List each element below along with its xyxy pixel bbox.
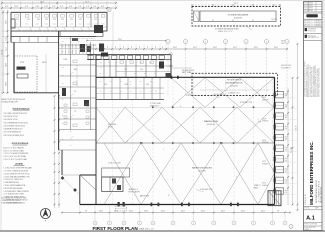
svg-text:9'-2": 9'-2"	[52, 6, 56, 8]
svg-text:9x10: 9x10	[285, 169, 288, 171]
svg-text:3: 3	[285, 223, 286, 225]
north wall window band	[87, 55, 171, 60]
svg-text:20'-0": 20'-0"	[161, 211, 166, 213]
south entrance door jambs and canopy below	[116, 202, 239, 211]
warehouse south wall	[80, 204, 275, 206]
office lower wall and rooms	[11, 37, 59, 43]
office corridor wall	[11, 36, 96, 38]
svg-text:LEVELER: LEVELER	[262, 121, 268, 123]
svg-text:STORAGE MEZZANINE PLAN: STORAGE MEZZANINE PLAN	[215, 27, 239, 30]
dock office rooms in SW warehouse corner	[102, 168, 130, 192]
svg-text:2: 2	[185, 41, 186, 43]
southwest canopy with columns	[61, 175, 96, 195]
svg-text:18'-6": 18'-6"	[6, 20, 8, 24]
svg-text:101 LOBBY / RECEPTION 14: 101 LOBBY / RECEPTION 14'X12'	[4, 113, 29, 115]
storage room 105 with dashed equipment	[14, 56, 37, 92]
svg-text:5. 30'X50' COL. GRID U.N.O.: 5. 30'X50' COL. GRID U.N.O.	[4, 179, 24, 181]
middle wing rooms and plumbing walls	[59, 25, 109, 150]
svg-text:9'-1": 9'-1"	[60, 6, 64, 8]
svg-text:LEVELER: LEVELER	[262, 164, 268, 166]
svg-text:4: 4	[291, 226, 292, 228]
svg-text:3: 3	[253, 223, 254, 225]
svg-text:3: 3	[173, 223, 174, 225]
svg-text:MILFORD ENTERPRISES INC.: MILFORD ENTERPRISES INC.	[309, 141, 314, 205]
warehouse west wall	[95, 55, 97, 205]
svg-text:20'-0": 20'-0"	[274, 47, 278, 49]
svg-text:CORR.: CORR.	[63, 59, 68, 61]
svg-text:12'x14' O.H. DOOR: 12'x14' O.H. DOOR	[108, 163, 121, 165]
svg-text:20'-0": 20'-0"	[173, 47, 177, 49]
svg-text:3: 3	[213, 223, 214, 225]
svg-text:88'-7": 88'-7"	[234, 3, 238, 5]
storage mezzanine plan (detail above)	[191, 3, 281, 33]
svg-text:103 OFFICE: 103 OFFICE 12'X10'	[4, 119, 19, 121]
svg-text:WAREHOUSE/STAGING: WAREHOUSE/STAGING	[192, 167, 213, 170]
svg-text:MECH.: MECH.	[42, 62, 47, 64]
svg-text:SEE CIVIL FOR: SEE CIVIL FOR	[281, 65, 291, 67]
svg-text:DOCK: DOCK	[262, 118, 266, 120]
southeast corner stair	[268, 191, 281, 206]
svg-text:9x10: 9x10	[285, 147, 288, 149]
svg-text:9x10: 9x10	[285, 94, 288, 96]
svg-text:3: 3	[95, 223, 96, 225]
title block sheet number	[304, 207, 323, 232]
svg-text:GRID: GRID	[281, 43, 284, 45]
svg-text:7'-0": 7'-0"	[93, 6, 97, 8]
svg-text:3: 3	[193, 223, 194, 225]
svg-text:3: 3	[153, 223, 154, 225]
svg-text:7'-6": 7'-6"	[78, 6, 82, 8]
svg-text:9'-0": 9'-0"	[5, 6, 9, 8]
right dimension strings	[281, 41, 298, 229]
svg-text:9'-1": 9'-1"	[25, 6, 29, 8]
svg-text:3: 3	[124, 223, 125, 225]
svg-text:2: 2	[287, 41, 288, 43]
svg-text:107 TOILET (MEN): 107 TOILET (MEN) 8'X10'	[4, 132, 23, 134]
svg-text:10: 10	[168, 195, 170, 197]
warehouse north wall	[96, 76, 275, 79]
svg-text:2: 2	[168, 41, 169, 43]
svg-text:ROOM: ROOM	[108, 126, 113, 128]
svg-text:2: 2	[225, 41, 226, 43]
svg-text:79'-0": 79'-0"	[118, 39, 123, 41]
svg-text:2: 2	[266, 41, 267, 43]
future office mezzanine dashed outline	[192, 73, 278, 95]
svg-text:14'-6": 14'-6"	[129, 211, 134, 213]
svg-text:FUTURE OFFICE: FUTURE OFFICE	[182, 70, 194, 72]
svg-text:8'-0": 8'-0"	[69, 6, 73, 8]
svg-text:20'-0": 20'-0"	[233, 47, 237, 49]
interior horizontal grid line upper	[96, 106, 275, 108]
svg-text:18'-0": 18'-0"	[6, 63, 8, 67]
steel columns at grid intersections	[152, 107, 254, 144]
svg-text:54'-8": 54'-8"	[40, 1, 45, 3]
svg-text:20'-0": 20'-0"	[254, 47, 258, 49]
storage room west wall	[13, 42, 15, 92]
southwest canopy edge line	[62, 174, 80, 176]
svg-text:9x10: 9x10	[285, 158, 288, 160]
svg-text:REFER TO KEY NOTES THIS SHT: REFER TO KEY NOTES THIS SHT	[2, 99, 26, 101]
svg-text:1,470 SF: 1,470 SF	[271, 19, 277, 21]
svg-text:LEVELER: LEVELER	[262, 99, 268, 101]
svg-text:LEVELER: LEVELER	[262, 142, 268, 144]
svg-text:9x10: 9x10	[285, 179, 288, 181]
svg-text:3: 3	[109, 223, 110, 225]
svg-text:3: 3	[234, 223, 235, 225]
rooms south of warehouse north wall	[96, 77, 164, 99]
svg-text:9x10: 9x10	[285, 126, 288, 128]
svg-text:MEZZANINE ABOVE: MEZZANINE ABOVE	[226, 81, 244, 84]
svg-text:9x10: 9x10	[285, 190, 288, 192]
svg-text:13'-6": 13'-6"	[144, 211, 149, 213]
svg-text:LEVELER: LEVELER	[262, 185, 268, 187]
svg-text:(6,000 SF): (6,000 SF)	[230, 86, 238, 88]
svg-text:(9,200 SF): (9,200 SF)	[198, 170, 206, 172]
title block frame and architect info	[304, 2, 323, 231]
svg-text:FUTURE OFFICE: FUTURE OFFICE	[227, 80, 242, 82]
upper-mid dimension strings	[86, 39, 288, 51]
roof bracing diagonals	[96, 78, 274, 205]
svg-text:5'-6": 5'-6"	[6, 37, 8, 41]
svg-text:SITE PRIOR TO COMMENCEMENT OF: SITE PRIOR TO COMMENCEMENT OF WORK.	[313, 65, 315, 97]
southwest step wall horizontal	[80, 174, 96, 176]
lower-left dimension strings	[46, 54, 60, 208]
svg-text:(6,000 SF): (6,000 SF)	[234, 18, 242, 20]
svg-text:(28,400 SF): (28,400 SF)	[207, 124, 216, 126]
svg-text:104 CONFERENCE ROOM 16'X1: 104 CONFERENCE ROOM 16'X12'	[4, 122, 29, 124]
svg-text:20'-0": 20'-0"	[221, 211, 226, 213]
southwest wing west wall	[61, 150, 63, 175]
svg-text:REPRODUCTION WITHOUT WRITTEN C: REPRODUCTION WITHOUT WRITTEN CONSENT	[308, 64, 310, 97]
column grid bubbles top	[107, 7, 289, 95]
svg-text:DOCK: DOCK	[262, 97, 266, 99]
svg-text:20'-0": 20'-0"	[193, 47, 197, 49]
svg-text:MEZZ.: MEZZ.	[254, 187, 259, 189]
svg-text:7'-10": 7'-10"	[35, 6, 40, 8]
canopy line east of offices	[171, 67, 192, 69]
interior fire wall	[96, 142, 275, 144]
office west wall segment	[10, 31, 12, 42]
svg-text:A.1: A.1	[306, 216, 315, 222]
svg-text:20'-0": 20'-0"	[201, 211, 206, 213]
svg-text:7'-5": 7'-5"	[86, 6, 90, 8]
svg-text:11: 11	[155, 91, 157, 93]
svg-text:SEE STRUCT.: SEE STRUCT.	[150, 105, 160, 107]
left dimension strings	[1, 10, 9, 94]
svg-text:STOR.: STOR.	[20, 62, 25, 64]
svg-text:DOCK: DOCK	[262, 140, 266, 142]
svg-text:TYP: TYP	[258, 121, 261, 123]
title block project name	[305, 141, 323, 205]
warehouse east wall	[274, 77, 276, 204]
svg-text:SHT No.: SHT No.	[304, 208, 310, 210]
svg-text:BEFORE PROCEEDING WITH THE WOR: BEFORE PROCEEDING WITH THE WORK.	[317, 68, 319, 97]
svg-text:14'-6": 14'-6"	[99, 211, 104, 213]
title block disclaimer text	[304, 61, 321, 97]
room labels	[16, 19, 261, 198]
svg-text:9x10: 9x10	[285, 115, 288, 117]
svg-text:18'-8": 18'-8"	[6, 82, 8, 86]
svg-text:9'-4" TYP: 9'-4" TYP	[291, 147, 293, 153]
sheet bottom border line	[0, 230, 325, 232]
svg-text:FIRE RISER: FIRE RISER	[108, 124, 116, 126]
svg-text:20'-0": 20'-0"	[213, 47, 217, 49]
front office cluster rooms	[96, 53, 172, 78]
svg-text:9x10: 9x10	[285, 104, 288, 106]
svg-text:3: 3	[272, 223, 273, 225]
column grid bubbles bottom and interior grid lines	[93, 78, 287, 226]
svg-text:20'-0": 20'-0"	[261, 211, 266, 213]
svg-text:NEW WAREHOUSE FACILITY: NEW WAREHOUSE FACILITY	[315, 179, 318, 203]
bottom-left general notes	[2, 197, 27, 205]
svg-text:DOCK: DOCK	[262, 183, 266, 185]
svg-text:PH 555.0100: PH 555.0100	[308, 30, 316, 32]
svg-text:7'-11": 7'-11"	[44, 6, 49, 8]
svg-text:127'-4": 127'-4"	[296, 125, 298, 130]
svg-text:FIRST FLOOR PLAN: FIRST FLOOR PLAN	[93, 226, 139, 231]
svg-text:3. DOCK LEVELER 7'X8' (TYP OF: 3. DOCK LEVELER 7'X8' (TYP OF 10)	[4, 173, 30, 175]
svg-text:3: 3	[139, 223, 140, 225]
svg-text:2: 2	[246, 41, 247, 43]
svg-text:52'-4": 52'-4"	[85, 1, 90, 3]
dock leveler labels	[262, 97, 268, 187]
warehouse key-note leaders	[108, 65, 291, 197]
left notes and schedules	[2, 99, 33, 204]
svg-text:2: 2	[205, 41, 206, 43]
svg-text:11'-8": 11'-8"	[14, 6, 19, 8]
svg-text:CONF.: CONF.	[124, 84, 129, 86]
svg-text:VESTIBULE &: VESTIBULE &	[129, 189, 138, 191]
svg-text:20'-0": 20'-0"	[241, 211, 246, 213]
svg-text:102 OFFICE: 102 OFFICE 12'X10'	[4, 116, 19, 118]
svg-text:6. FIRE RISER ROOM: 6. FIRE RISER ROOM	[4, 182, 20, 184]
top dimension strings	[1, 1, 117, 10]
north arrow	[41, 209, 51, 223]
svg-text:JOB NO: 04-112: JOB NO: 04-112	[305, 194, 307, 205]
svg-text:56'-10": 56'-10"	[1, 49, 3, 54]
svg-text:13'-7": 13'-7"	[6, 47, 8, 51]
loading dock doors and levelers	[274, 92, 297, 195]
west block south wall	[14, 92, 59, 94]
svg-text:JOIST BRG.: JOIST BRG.	[186, 95, 195, 97]
svg-text:STORAGE MEZZANINE: STORAGE MEZZANINE	[228, 13, 249, 16]
svg-text:9x10: 9x10	[285, 137, 288, 139]
svg-text:DOCK: DOCK	[262, 161, 266, 163]
southwest step wall vertical	[79, 175, 81, 205]
svg-text:20'-0": 20'-0"	[181, 211, 186, 213]
svg-text:108 TOILET (WOMEN) 8: 108 TOILET (WOMEN) 8'X10'	[4, 135, 25, 137]
bottom dimension string	[61, 206, 291, 215]
svg-text:9'-0": 9'-0"	[101, 6, 105, 8]
office wing rooms (top row)	[11, 11, 107, 31]
svg-text:WAREHOUSE: WAREHOUSE	[204, 120, 219, 123]
